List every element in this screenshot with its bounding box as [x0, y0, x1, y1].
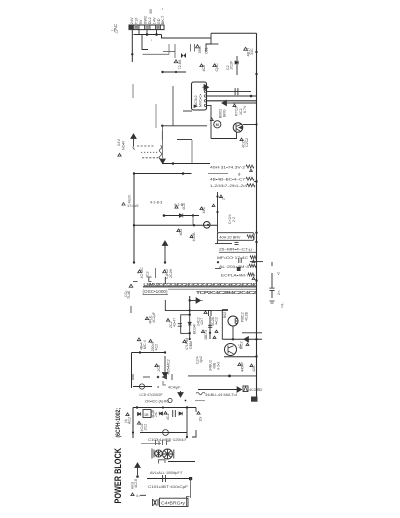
junction border y339	[255, 338, 257, 340]
svg-text:4C8: 4C8	[182, 203, 186, 210]
test point TP32	[164, 412, 167, 415]
svg-text:2C2: 2C2	[157, 365, 161, 372]
svg-text:MVC•C•: MVC•C•	[199, 93, 203, 107]
test point TP7	[233, 104, 236, 107]
junction y163 x173	[172, 162, 175, 165]
transistor Q902 wedge	[238, 126, 243, 130]
junction border y52	[255, 51, 257, 53]
svg-text:1B: 1B	[144, 413, 149, 417]
mark h y400	[195, 400, 205, 402]
wire row y252	[219, 251, 257, 253]
transistor Q905 internals	[228, 346, 234, 354]
connector pin dividers	[134, 25, 161, 30]
test point TP14	[219, 195, 222, 198]
wire h y386 left	[133, 386, 152, 388]
wire step h2	[206, 43, 219, 45]
wire h y432	[140, 432, 187, 434]
junction x189 y339	[189, 338, 191, 340]
arrow x165 up	[162, 241, 167, 248]
transistor Q905	[225, 344, 237, 356]
svg-text:42•47: 42•47	[173, 318, 177, 327]
junction y300 l	[189, 299, 191, 301]
junction x210 y333	[209, 332, 211, 334]
cap dash a	[270, 300, 275, 302]
test point TP31	[126, 413, 129, 416]
wire h y407	[133, 407, 196, 409]
wire h y173 stub	[208, 173, 228, 175]
resistor R917	[248, 273, 255, 276]
junction y407 a	[136, 406, 138, 408]
svg-text:4C: 4C	[238, 344, 242, 349]
wire v x156 low	[155, 104, 157, 128]
arrow x137 up	[135, 463, 140, 475]
test point TP24C2	[204, 311, 207, 314]
wire v x190 pair a	[190, 44, 192, 52]
wire right border v	[256, 33, 258, 397]
diode D905	[188, 322, 191, 325]
junction x165 y262	[164, 261, 166, 263]
test point TP29	[238, 363, 241, 366]
wire core v x162	[162, 127, 164, 159]
connector pin fills	[130, 26, 134, 30]
resistor R915	[250, 256, 257, 259]
transistor Q903 mark	[207, 224, 209, 226]
corner bracket x196	[192, 430, 196, 437]
relay K901 box	[217, 233, 254, 241]
wire box left drop	[217, 240, 232, 243]
capacitor C923	[208, 325, 212, 327]
svg-text:POWER BLOCK: POWER BLOCK	[113, 448, 123, 504]
wire v x222	[221, 310, 223, 340]
svg-text:4·2·8·3: 4·2·8·3	[150, 201, 162, 205]
junction x133 y432	[132, 431, 134, 433]
test point TP19	[129, 284, 133, 287]
svg-text:C|4C: C|4C	[215, 63, 219, 72]
wire v x196 stub	[195, 408, 197, 413]
dash y495	[140, 494, 146, 496]
diode D904	[159, 412, 162, 416]
test point TP35	[131, 493, 134, 496]
connector P901 body	[129, 25, 164, 30]
wire conn drop c	[156, 30, 158, 35]
svg-text:4C2B: 4C2B	[192, 232, 196, 242]
junction x134 top	[133, 224, 135, 226]
junction y376 x229	[228, 375, 231, 378]
wire v x272 c	[271, 291, 273, 298]
svg-text:SW2: SW2	[144, 16, 148, 24]
svg-text:34•BU–44·MULT•4: 34•BU–44·MULT•4	[205, 393, 237, 397]
test point TP15	[212, 204, 215, 206]
svg-text:C4•BRG•y: C4•BRG•y	[161, 501, 186, 506]
arrowhead core down	[160, 159, 165, 164]
junction y310 x189	[189, 309, 191, 311]
transistor Q901	[214, 121, 221, 128]
capacitor C942 round	[163, 430, 169, 436]
wavy mark	[196, 392, 205, 395]
svg-text:4B•4B–BC•4–C7: 4B•4B–BC•4–C7	[210, 178, 245, 182]
junction x187 y437	[186, 436, 188, 438]
jack J901 cluster	[152, 449, 174, 460]
test point TP26	[137, 338, 140, 341]
svg-text:CC•: CC•	[124, 290, 128, 297]
bottom label phi	[153, 499, 159, 506]
wire top border h	[211, 32, 257, 34]
svg-text:435•MC2: 435•MC2	[167, 359, 171, 374]
wire h y243 left	[215, 243, 217, 245]
junction y125 left	[161, 125, 163, 127]
svg-text:TCP2C4C2B4C2C4C2: TCP2C4C2B4C2C4C2	[196, 290, 258, 295]
wire v x237	[236, 56, 238, 75]
junction border y356	[255, 355, 257, 357]
test point TP13	[190, 235, 193, 238]
wire bus to right	[162, 35, 212, 39]
svg-text:ECPLA•4M·7: ECPLA•4M·7	[221, 274, 249, 278]
svg-text:42C: 42C	[252, 365, 256, 372]
wire v x165 stub2	[164, 300, 166, 311]
test point TP loop2	[215, 330, 218, 332]
svg-text:41C: 41C	[202, 206, 206, 213]
wire IC left stub	[183, 110, 192, 112]
diode X D901	[181, 53, 186, 58]
wire right step	[206, 33, 211, 52]
svg-text:≈4₋: ≈4₋	[281, 302, 285, 308]
bracket E mark	[149, 277, 152, 282]
wire pin1 down	[131, 30, 133, 62]
wire conn drop b	[146, 30, 148, 35]
wire Q902 emitter	[211, 132, 237, 139]
test point TP12	[177, 229, 180, 232]
junction border y181	[255, 180, 257, 182]
test point TP8	[240, 138, 243, 141]
arrow left y103	[222, 100, 232, 105]
junction pin1	[131, 53, 133, 55]
capacitor C941	[173, 410, 176, 417]
svg-text:NC•R: NC•R	[122, 141, 126, 150]
svg-text:MF•CO·17•4C: MF•CO·17•4C	[217, 256, 248, 260]
test point TP23	[201, 330, 204, 333]
marks row y377 left	[133, 374, 172, 380]
svg-text:40H 20 BRV: 40H 20 BRV	[219, 236, 241, 240]
svg-text:R7C2: R7C2	[235, 107, 239, 116]
test point TP11	[200, 207, 203, 210]
test point TP3	[200, 64, 203, 67]
wire Q902 collector	[243, 124, 257, 126]
wire h y356	[224, 356, 257, 358]
svg-text:C101•4BT·410•CμF: C101•4BT·410•CμF	[148, 485, 189, 489]
svg-text:14V: 14V	[153, 17, 157, 24]
junction y72 b	[175, 71, 177, 73]
junction y96	[250, 95, 253, 98]
diode D902	[179, 214, 183, 218]
wire corner x134	[133, 174, 135, 263]
wire conn bus y34	[134, 34, 162, 36]
svg-text:2C2H: 2C2H	[169, 268, 173, 278]
wire v x131 low	[131, 353, 133, 389]
junction y352 a	[139, 351, 141, 353]
svg-text:•2: •2	[277, 272, 281, 275]
diode D903	[138, 412, 141, 416]
rectifier BD901 box	[143, 410, 151, 418]
svg-text:2C2F: 2C2F	[230, 60, 234, 70]
svg-text:CR•4CC·(A)·RG: CR•4CC·(A)·RG	[145, 400, 169, 404]
svg-text:2C2: 2C2	[144, 424, 148, 431]
capacitor C922	[178, 324, 182, 327]
transformer T901 dashed 2	[141, 151, 158, 153]
junction border y242	[255, 241, 257, 243]
wire h y332	[242, 332, 262, 334]
test point TP34	[137, 421, 140, 424]
test point TP30	[250, 364, 253, 367]
wire v x193 down	[192, 216, 194, 226]
svg-text:DL2: DL2	[148, 17, 152, 24]
junction x134 y262	[133, 261, 135, 263]
wire v x173 upper	[172, 86, 174, 126]
wire row3 to border	[254, 181, 257, 183]
svg-text:C2: C2	[226, 65, 230, 70]
svg-text:42•7: 42•7	[200, 318, 204, 325]
junction x137 y476	[136, 475, 139, 478]
test point TP2	[174, 60, 178, 63]
test point TP4	[213, 64, 216, 67]
svg-text:GBM: GBM	[189, 341, 193, 349]
junction y215 left	[163, 214, 166, 217]
wire v x187	[186, 408, 188, 438]
OSC underline	[143, 294, 169, 296]
junction x134 y173	[133, 172, 135, 174]
dash y268	[215, 268, 221, 270]
test point TP27	[183, 340, 186, 343]
bracket n x210	[209, 311, 212, 317]
snubber loop	[181, 315, 190, 334]
wire v x175	[174, 44, 176, 58]
transformer hook	[133, 146, 135, 150]
jack J901 top marks	[156, 440, 171, 445]
test point TP10	[175, 205, 178, 208]
junction y352 b	[164, 351, 166, 353]
bracket x163b	[163, 381, 166, 385]
capacitor C921	[270, 288, 275, 290]
capacitor C942 cross	[163, 432, 168, 434]
band line 2	[168, 288, 257, 290]
arrow y300 right	[191, 298, 201, 303]
wire v x217 col	[217, 192, 219, 233]
svg-text:9V: 9V	[139, 19, 143, 24]
arrow x165 down	[162, 356, 167, 377]
svg-text:20–MR•4–C7·μ: 20–MR•4–C7·μ	[219, 247, 252, 251]
capacitor C931 cross	[140, 386, 145, 388]
svg-text:40H·31•74.3V·2: 40H·31•74.3V·2	[210, 166, 245, 170]
wire conn drop a	[138, 30, 140, 35]
transistor Q902	[233, 123, 243, 133]
test point TP25	[246, 343, 249, 345]
wire h y478	[147, 478, 191, 480]
wire IC pin2 h	[206, 91, 251, 93]
svg-text:B02: B02	[223, 312, 227, 318]
capacitor Cx2	[239, 258, 241, 263]
wire IC pin4 h	[206, 100, 256, 102]
svg-text:2•C: 2•C	[154, 411, 158, 417]
test point TPr2	[252, 260, 255, 262]
svg-text:∼ɬ: ∼ɬ	[111, 28, 116, 33]
junction border y74	[255, 73, 257, 75]
connector M blob 2	[243, 386, 248, 392]
wire v x131 stub	[130, 306, 132, 313]
svg-text:39C: 39C	[197, 46, 202, 53]
svg-text:1–2/43•7–29•1–2•4: 1–2/43•7–29•1–2•4	[210, 184, 247, 188]
mark y400	[185, 400, 187, 402]
svg-text:AVL•ALL·100MμF ℱ: AVL•ALL·100MμF ℱ	[150, 470, 184, 475]
transformer winding bumps	[159, 146, 162, 160]
capacitor C931 round	[139, 384, 144, 389]
capacitor C932 round	[168, 398, 172, 402]
svg-text:4+: 4+	[238, 172, 242, 176]
arrowhead y339	[244, 337, 249, 342]
test point TP9	[118, 153, 121, 156]
test point TP41735	[122, 202, 125, 205]
junction border y233	[255, 232, 257, 234]
junction y407 c	[186, 406, 188, 408]
svg-text:4C2: 4C2	[179, 229, 183, 236]
svg-text:4C2B: 4C2B	[245, 311, 249, 321]
svg-text:. ▪: . ▪	[160, 7, 163, 11]
svg-text:': '	[151, 40, 152, 46]
cap dash b	[271, 302, 274, 304]
wire h y215	[164, 215, 199, 217]
wire h y54	[143, 53, 170, 55]
junction y225 x194	[193, 224, 195, 226]
svg-text:M: M	[216, 123, 219, 127]
wire v x272 a	[271, 262, 273, 266]
border terminal block	[251, 397, 258, 402]
junction y407 b	[162, 406, 164, 408]
transistor Q904 internals	[235, 318, 237, 324]
svg-text:4C4/μF: 4C4/μF	[168, 386, 181, 390]
junction x218 y262	[217, 261, 219, 263]
svg-text:4C2/R̸G: 4C2/R̸G	[249, 388, 262, 392]
wire h y125	[162, 125, 207, 127]
wire v x189 below loop	[189, 333, 191, 339]
wire Q904 emitter	[232, 326, 234, 339]
junction conn c	[155, 33, 158, 36]
svg-text:445•P: 445•P	[241, 362, 245, 372]
wire stub y261	[250, 261, 263, 263]
test point TP1	[196, 45, 200, 48]
svg-text:C91: C91	[205, 47, 209, 54]
test point TP26b	[149, 339, 152, 342]
wire v x189 band to loop	[189, 296, 191, 315]
junction loop br	[189, 332, 191, 334]
svg-text:T10: T10	[135, 18, 139, 25]
svg-text:24 V: 24 V	[117, 138, 121, 146]
capacitor Cx1	[235, 242, 239, 244]
wire pin step x142	[142, 35, 148, 50]
svg-text:2 <: 2 <	[277, 290, 281, 295]
wire h y376	[188, 375, 257, 377]
test point TP18	[163, 270, 167, 273]
diode D906	[179, 412, 182, 416]
svg-text:(4): (4)	[124, 419, 128, 423]
svg-text:6.7V: 6.7V	[243, 105, 247, 113]
junction loop tr	[189, 314, 191, 316]
arrow into IC pin1	[203, 85, 209, 90]
wire IC pin5 step	[206, 105, 211, 138]
bottom bracket right	[187, 497, 190, 507]
wire v x192 mid	[191, 140, 193, 164]
wire v x133	[132, 408, 134, 439]
transformer T901 dashed 1	[137, 145, 155, 147]
wire h y339	[222, 338, 262, 340]
junction x217 y212	[216, 211, 218, 213]
junction border y280	[255, 279, 257, 281]
test point TPr3	[252, 277, 255, 279]
svg-text:31C: 31C	[250, 48, 254, 55]
wire v x165 to band	[164, 277, 166, 284]
svg-text:C2C2: C2C2	[245, 138, 249, 147]
test point TPr1	[250, 169, 253, 171]
capacitor C943	[163, 475, 166, 482]
wire v x194 pair b	[194, 44, 196, 52]
wire h y163	[162, 163, 210, 165]
wire h y51	[163, 51, 175, 53]
junction x217 y196	[216, 195, 218, 197]
test point TP21	[145, 317, 148, 320]
wire h y173	[134, 173, 192, 175]
svg-text:4·2•2: 4·2•2	[217, 362, 221, 370]
IC internal arrow	[194, 105, 198, 108]
wire h y139	[177, 139, 192, 141]
transistor Q902 internals	[236, 124, 241, 132]
corner x222 top	[222, 309, 228, 311]
test point TP loop3	[213, 336, 216, 338]
svg-text:4•C2: 4•C2	[215, 317, 219, 325]
svg-text:BRG: BRG	[223, 109, 227, 117]
svg-text:LCD·47•300/2F: LCD·47•300/2F	[140, 393, 164, 397]
wire v x133 low	[132, 84, 134, 98]
junction square y478	[189, 477, 192, 480]
test point TP33	[197, 411, 200, 414]
svg-text:(6CPH-1002;: (6CPH-1002;	[116, 408, 122, 438]
transformer T901 dashed 3	[142, 157, 160, 159]
dash TUNE	[133, 281, 138, 283]
test point TP5	[244, 47, 248, 50]
svg-text:72.8 8: 72.8 8	[178, 60, 182, 70]
wire y103 to border	[232, 102, 257, 104]
wire IC pin3 h	[206, 95, 256, 97]
junction y72	[161, 71, 163, 73]
resistor R914	[247, 235, 254, 238]
wire h y461	[168, 461, 195, 463]
svg-text:AC2: AC2	[128, 417, 132, 424]
wire h y443 gray	[141, 443, 161, 445]
wire v x169	[168, 44, 170, 54]
svg-text:2: 2	[222, 198, 226, 200]
svg-text:MC·4: MC·4	[143, 340, 147, 349]
svg-text:2·2: 2·2	[232, 217, 236, 222]
zener ZD901	[235, 61, 238, 65]
svg-text:2bl: 2bl	[199, 417, 203, 422]
resistor R916	[249, 264, 256, 267]
svg-text:1BD·4: 1BD·4	[204, 330, 208, 340]
svg-text:4C·MC: 4C·MC	[140, 267, 144, 279]
M blob mark	[237, 267, 241, 271]
wire h y389	[198, 389, 238, 391]
svg-text:4C2: 4C2	[155, 344, 159, 351]
svg-text:4C2μF: 4C2μF	[152, 311, 156, 323]
resistor R913	[247, 184, 255, 187]
wire v x210	[209, 316, 211, 339]
wire v x272 b	[271, 273, 273, 288]
junction y173 x183	[182, 172, 185, 175]
